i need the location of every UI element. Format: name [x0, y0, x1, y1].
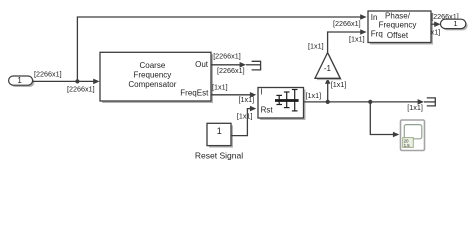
svg-text:Offset: Offset [387, 31, 409, 40]
junction on In1 wire [75, 79, 79, 83]
svg-text:[1x1]: [1x1] [331, 80, 347, 89]
svg-text:Phase/: Phase/ [385, 12, 411, 21]
svg-text:[2266x1]: [2266x1] [217, 66, 245, 75]
block Phase/Frequency Offset [368, 11, 433, 45]
svg-text:1.5: 1.5 [404, 143, 410, 148]
svg-text:[1x1]: [1x1] [407, 103, 423, 112]
svg-text:[2266x1]: [2266x1] [67, 85, 95, 94]
svg-text:[2266x1]: [2266x1] [213, 51, 241, 60]
svg-text:Reset Signal: Reset Signal [195, 150, 243, 160]
wire Mean out to terminator T2 [304, 99, 425, 105]
wire gain to Phase Frq [328, 29, 367, 52]
svg-text:Frequency: Frequency [379, 21, 417, 30]
block Mean [258, 88, 306, 121]
outport Out1 [441, 19, 468, 30]
svg-text:Frequency: Frequency [134, 70, 172, 79]
svg-text:1: 1 [453, 19, 457, 28]
terminator T2 [424, 98, 435, 106]
wire Out to terminator [211, 62, 246, 68]
svg-text:Rst: Rst [261, 106, 274, 115]
constant Reset [207, 123, 233, 147]
svg-text:-1: -1 [324, 64, 332, 73]
svg-text:[1x1]: [1x1] [306, 91, 322, 100]
terminator T1 [246, 61, 261, 70]
svg-text:[2266x1]: [2266x1] [34, 70, 62, 79]
svg-text:[1x1]: [1x1] [239, 95, 255, 104]
svg-text:Out: Out [195, 60, 209, 69]
block Scope [401, 120, 425, 151]
wire In1 to compensator [33, 79, 100, 85]
svg-text:I: I [261, 88, 263, 97]
wire Phase out to outport [431, 21, 441, 27]
svg-text:[1x1]: [1x1] [237, 112, 253, 121]
wire junction1 up to gain [325, 78, 331, 102]
svg-text:x1]: x1] [431, 27, 441, 36]
svg-text:Coarse: Coarse [140, 61, 166, 70]
Mean icon [275, 90, 299, 111]
junction 1 on Mean out wire [326, 100, 330, 104]
wire constant to Mean Rst [231, 106, 256, 136]
wire junction2 down to scope [370, 102, 399, 137]
svg-text:1: 1 [17, 76, 22, 85]
svg-text:FreqEst: FreqEst [180, 89, 209, 98]
block Coarse Frequency Compensator [100, 52, 213, 103]
wire FreqEst to Mean I [211, 92, 256, 98]
junction 2 on Mean out wire [368, 100, 372, 104]
gain -1 [315, 53, 342, 81]
svg-text:[1x1]: [1x1] [308, 41, 324, 50]
wire branch up to Phase In [77, 14, 366, 81]
svg-text:Frq: Frq [371, 29, 383, 38]
svg-text:[1x1]: [1x1] [212, 82, 228, 91]
inport In1 [9, 76, 35, 87]
svg-text:[1x1]: [1x1] [349, 34, 365, 43]
svg-text:Compensator: Compensator [128, 80, 176, 89]
svg-text:In: In [371, 13, 378, 22]
svg-text:[2266x1]: [2266x1] [333, 19, 361, 28]
svg-text:1: 1 [217, 126, 222, 136]
